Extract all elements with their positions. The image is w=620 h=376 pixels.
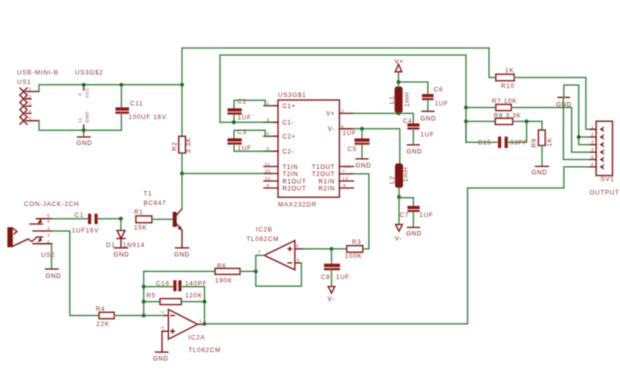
junction R5 right [203,300,207,304]
svg-text:C11: C11 [130,101,143,108]
wire USB pin5 to bottom rail [39,121,121,131]
svg-text:1UF: 1UF [238,145,252,152]
svg-text:T1: T1 [144,191,153,198]
ground below USB [77,130,93,147]
svg-text:6: 6 [297,258,300,264]
capacitor C16 140PF [144,280,207,291]
svg-text:7: 7 [342,169,345,175]
wire ground to SV1 pin5 [563,97,590,159]
svg-text:5: 5 [47,213,50,219]
supply V+ arrow [395,59,404,72]
svg-text:6: 6 [341,124,344,130]
resistor R6 190K [144,263,256,285]
svg-text:12: 12 [265,176,271,182]
svg-text:T2OUT: T2OUT [312,172,335,178]
resistor R3 100K [332,239,369,260]
junction D1 node [119,217,123,221]
resistor R8 3.3K [466,113,542,125]
resistor R1 15K [134,209,173,232]
svg-text:1mH: 1mH [404,92,411,107]
wire top rail 1 [182,48,489,85]
wire C1- row [220,121,272,123]
svg-text:IC2B: IC2B [256,226,273,233]
wire to T2IN [182,173,272,175]
capacitor C15 33PF [466,121,528,148]
svg-text:R1IN: R1IN [319,179,335,185]
op-amp IC2B TL062CM [247,226,305,270]
svg-text:3: 3 [591,140,594,146]
junction R8 left [464,120,468,124]
ground below T1 [174,248,190,259]
svg-text:5: 5 [296,244,299,250]
svg-text:1UF16V: 1UF16V [72,228,99,235]
svg-text:GND: GND [174,252,190,259]
svg-text:8: 8 [343,183,346,189]
svg-text:MAX232DR: MAX232DR [278,201,317,208]
svg-text:4: 4 [29,108,32,114]
inductor L1 1mH [389,72,411,113]
wire feedback right vertical [204,287,206,324]
svg-text:T1OUT: T1OUT [312,165,335,171]
capacitor C4 1UF [399,113,435,144]
svg-text:GND: GND [420,116,436,123]
svg-text:5: 5 [29,116,32,122]
node GND stub [78,111,91,130]
diode D1 1N914 [106,219,145,249]
svg-text:13: 13 [342,176,348,182]
svg-text:3.3K: 3.3K [186,137,193,153]
svg-text:1K: 1K [505,68,514,75]
svg-text:R10: R10 [501,83,515,90]
wire V+ pin to L1 [354,112,399,114]
junction C5 [360,127,364,131]
svg-text:4: 4 [47,219,50,225]
wire jack pin3 down to R4 [52,231,99,316]
svg-text:GND: GND [532,170,548,177]
connector SV1 OUTPUT [590,121,620,196]
ground node at SV1 [556,97,572,108]
svg-text:R8 3.3K: R8 3.3K [494,113,522,120]
svg-text:140PF: 140PF [185,281,207,288]
svg-text:3: 3 [160,326,166,329]
resistor R4 22K [96,306,144,328]
ground below C6 [420,111,436,122]
wire top rail 2 [220,55,466,142]
svg-text:1: 1 [29,87,32,93]
svg-text:C7: C7 [400,212,409,219]
svg-text:1: 1 [47,232,50,238]
svg-text:C5: C5 [348,146,357,153]
svg-text:5: 5 [591,155,594,161]
svg-text:1UF: 1UF [419,212,433,219]
svg-text:TL062CM: TL062CM [188,347,221,354]
wire input node to op-amp [144,315,164,317]
svg-text:R1: R1 [134,209,143,216]
svg-text:100UF 16V: 100UF 16V [129,114,167,121]
svg-text:C1: C1 [75,212,84,219]
svg-text:US1: US1 [17,79,31,86]
wire USB pin1 to top rail [39,85,182,92]
svg-text:2: 2 [47,239,50,245]
svg-text:1UF: 1UF [238,115,252,122]
svg-text:1UF: 1UF [336,274,350,281]
ground below US2 [46,269,62,280]
wire feedback left vertical [143,271,145,315]
svg-text:R6: R6 [217,263,226,270]
ground below C5 [356,159,372,170]
svg-text:C2: C2 [238,99,247,106]
svg-text:V+: V+ [326,112,335,118]
resistor R5 120K [144,293,205,305]
junction T2IN node [180,172,184,176]
capacitor C8 1UF [321,249,350,286]
wire to T1 collector [181,174,183,208]
svg-text:1UF: 1UF [420,132,434,139]
svg-text:CON-JACK-2CH: CON-JACK-2CH [24,201,79,208]
wire V- pin row [354,129,400,164]
junction R6 right [254,270,258,274]
inductor L2 1mH [389,163,410,197]
svg-text:3: 3 [29,101,32,107]
resistor R7 10K [466,98,572,110]
svg-text:6: 6 [591,162,594,168]
wire R3 to T2OUT [354,174,369,249]
svg-text:1: 1 [199,319,202,325]
junction IC2A input node [142,314,146,318]
wire IC2B feedback loop [256,255,302,286]
svg-text:14: 14 [345,164,351,170]
svg-text:C16: C16 [156,281,170,288]
svg-text:C3: C3 [238,129,247,136]
svg-text:US2: US2 [41,252,55,259]
svg-text:C4: C4 [403,118,412,125]
wire IC2A plus to ground [162,331,164,351]
svg-text:15K: 15K [134,225,147,232]
svg-text:1: 1 [591,124,594,130]
svg-text:C1+: C1+ [283,104,296,110]
svg-text:GND: GND [114,252,130,259]
svg-text:C2-: C2- [283,150,295,156]
svg-text:T1IN: T1IN [283,165,299,171]
svg-text:9: 9 [267,183,270,189]
IC US3G$1 MAX232DR [264,92,354,208]
transistor T1 BC847 [144,191,183,248]
junction GND [82,128,86,132]
capacitor C7 1UF [399,198,433,227]
wire jack pin2 to ground [51,244,53,269]
junction SV1 pin2 [577,135,581,139]
svg-text:GND: GND [77,140,93,147]
supply V- arrow below L2 [395,197,403,243]
svg-text:R5: R5 [146,293,155,300]
junction VBUS-VCC [82,83,86,87]
svg-text:10: 10 [265,169,271,175]
svg-text:US3G$1: US3G$1 [278,92,306,99]
ground below IC2A [153,352,169,362]
resistor R10 1K [489,48,590,129]
svg-text:1UF: 1UF [435,100,449,107]
svg-text:GND: GND [85,111,91,123]
junction R7 left [464,106,468,110]
svg-text:GND: GND [356,163,372,170]
svg-text:R2OUT: R2OUT [283,186,307,192]
supply V- arrow below C8 [328,287,335,304]
svg-text:3: 3 [47,226,50,232]
svg-text:2: 2 [29,94,32,100]
capacitor C11 100UF 16V [116,85,167,130]
svg-text:R7 10K: R7 10K [492,98,517,105]
svg-text:R1OUT: R1OUT [283,179,307,185]
svg-text:TL062CM: TL062CM [247,236,280,243]
junction C15 riser [525,120,529,124]
junction output node [203,322,207,326]
svg-text:1K: 1K [547,137,554,146]
capacitor C6 1UF [399,82,449,111]
svg-text:R2IN: R2IN [319,186,335,192]
svg-text:V-: V- [328,296,335,303]
resistor R9 1K [531,121,554,165]
svg-text:IC2A: IC2A [188,335,205,342]
wire ground jog to SV1 pins 2,3 [564,85,590,145]
capacitor C1 1UF16V [72,212,121,235]
svg-text:USB-MINI-B: USB-MINI-B [17,70,59,77]
node VCC stub [78,85,91,98]
svg-text:33PF: 33PF [510,139,528,146]
wire IC2A output long run [205,167,591,324]
wire to SV1 pin2 [579,136,590,138]
svg-text:100K: 100K [345,253,363,260]
svg-text:GND: GND [46,273,62,280]
junction L2 bottom [397,195,401,199]
svg-text:BC847: BC847 [144,200,167,207]
junction L1 bottom [397,112,401,116]
wire R7 to SV1 pin4 [572,108,590,153]
junction C2 bottom [232,120,236,124]
svg-text:2: 2 [341,108,344,114]
svg-text:V-: V- [395,236,402,243]
resistor R2 3.3K [172,85,193,174]
svg-text:7: 7 [258,250,261,256]
svg-text:V-: V- [328,127,335,133]
svg-text:T2IN: T2IN [283,172,299,178]
svg-text:22K: 22K [96,321,109,328]
svg-text:R9: R9 [531,138,538,147]
junction C8 node [330,247,334,251]
junction C16 left [142,285,146,289]
svg-text:1UF: 1UF [343,130,357,137]
svg-text:190K: 190K [215,277,233,284]
svg-text:GND: GND [407,149,423,156]
ground below R9 [532,166,549,176]
svg-text:2: 2 [591,132,594,138]
svg-text:V+: V+ [395,59,404,66]
svg-text:1mH: 1mH [403,167,410,182]
capacitor C3 1UF [228,129,273,152]
svg-text:R3: R3 [352,239,361,246]
svg-text:C2+: C2+ [283,135,296,141]
svg-text:C8: C8 [321,274,330,281]
svg-text:11: 11 [265,162,271,168]
ground below C7 [406,227,422,237]
svg-text:4: 4 [591,147,594,153]
wire IC2B plus input [304,248,332,250]
svg-text:SV1: SV1 [601,176,615,183]
junction C11 top [120,83,124,87]
ground below C4 [407,145,423,156]
svg-text:3: 3 [78,93,84,96]
op-amp IC2A TL062CM [160,309,221,353]
svg-text:VCC: VCC [85,87,91,98]
svg-text:11: 11 [78,117,84,123]
svg-text:L2: L2 [389,176,396,184]
capacitor C5 1UF [343,129,370,159]
svg-text:GND: GND [153,356,169,363]
junction R5 left [142,300,146,304]
svg-text:R2: R2 [172,142,179,151]
svg-text:L1: L1 [389,96,396,104]
svg-text:C6: C6 [434,86,443,93]
svg-text:US3G$2: US3G$2 [75,70,103,77]
wire jack pin5 to C1 [52,218,88,220]
svg-text:C15: C15 [478,139,492,146]
connector US1 USB-MINI-B [17,70,103,125]
svg-text:2: 2 [160,311,166,314]
junction C6 branch [397,80,401,84]
svg-text:C1-: C1- [283,121,295,127]
capacitor C2 1UF [228,99,273,123]
svg-text:120K: 120K [185,293,203,300]
svg-text:GND: GND [406,231,422,238]
connector US2 CON-JACK-2CH [7,201,79,259]
svg-text:OUTPUT: OUTPUT [590,190,620,197]
ground below D1 [114,248,130,259]
svg-text:R4: R4 [96,306,105,313]
junction at 182,84.8 [180,83,184,87]
